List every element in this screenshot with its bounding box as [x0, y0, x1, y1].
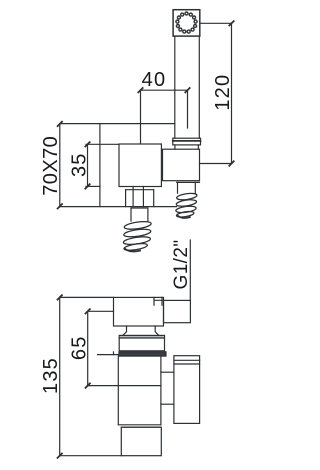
collar-to-fitting stubs	[174, 145, 176, 149]
hex nut under knob	[126, 187, 154, 207]
holder arm top line	[60, 123, 175, 125]
shower head spray nozzle dots	[176, 12, 197, 33]
tick 70X70 bottom	[58, 204, 62, 208]
tick 35 bottom	[85, 184, 89, 188]
dimension 40 line	[141, 89, 188, 91]
valve knob square	[119, 144, 161, 187]
flange tab	[113, 352, 115, 355]
holder block side view	[114, 297, 164, 326]
right fitting block	[163, 149, 200, 181]
tick 40 right	[185, 88, 189, 92]
holder clip tab	[154, 297, 164, 305]
wall plate left edge (70X70 dim line)	[59, 124, 61, 207]
dimension 120 top extension line	[200, 22, 232, 24]
tick 65 top	[86, 309, 90, 313]
flange bar	[119, 352, 166, 356]
hose stub under nut	[131, 208, 148, 221]
dimension 120 line	[231, 23, 233, 163]
right hose stub	[178, 182, 196, 193]
dimension 35 bottom extension	[86, 185, 100, 187]
G1/2 extension line	[189, 240, 191, 301]
wall plate bottom edge long line	[60, 206, 177, 208]
tick 65 bottom	[86, 383, 90, 387]
link boss	[161, 372, 174, 404]
tick 70X70 top	[58, 122, 62, 126]
flange thin line	[98, 354, 120, 356]
collar block side view	[119, 335, 164, 350]
shower head outline	[173, 10, 200, 36]
tick 135 bottom	[58, 454, 62, 458]
fitting lower rim	[177, 181, 200, 183]
svg-text:135: 135	[40, 357, 62, 394]
dimension 135 bottom extension	[60, 455, 122, 457]
neck trapezoid	[123, 326, 159, 335]
valve body column	[118, 356, 161, 427]
svg-text:120: 120	[212, 74, 234, 111]
handle collar	[173, 138, 201, 145]
svg-text:70X70: 70X70	[40, 136, 62, 196]
dimension 40 right extension line	[187, 90, 189, 128]
dimension 40 left extension line	[140, 90, 142, 144]
dimension 65 bottom extension / body seam	[88, 385, 161, 387]
svg-text:35: 35	[68, 152, 90, 177]
handle left edge wire	[174, 36, 176, 138]
right coiled hose	[175, 192, 197, 218]
outlet drum	[174, 356, 200, 424]
dimension 120 bottom extension line	[200, 163, 232, 165]
tick 120 top	[229, 21, 233, 25]
tick 135 top	[58, 295, 62, 299]
dimension 65 line	[87, 311, 89, 385]
dimension 35 top extension	[86, 143, 119, 145]
handle right edge wire	[198, 36, 200, 138]
svg-text:G1/2": G1/2"	[171, 240, 192, 290]
plate inner vertical line	[99, 124, 101, 207]
tick 35 top	[85, 142, 89, 146]
wall pipe block	[164, 300, 191, 322]
dimension 135 line	[59, 297, 61, 455]
svg-text:65: 65	[68, 335, 90, 360]
svg-text:40: 40	[142, 69, 167, 91]
tick 120 bottom	[229, 161, 233, 165]
dimension 65 top extension	[88, 310, 114, 312]
dimension 135 top extension	[60, 296, 114, 298]
bottom block	[121, 427, 161, 456]
tick 40 left	[138, 88, 142, 92]
left coiled hose	[123, 220, 152, 251]
dimension 35 line	[87, 144, 89, 186]
